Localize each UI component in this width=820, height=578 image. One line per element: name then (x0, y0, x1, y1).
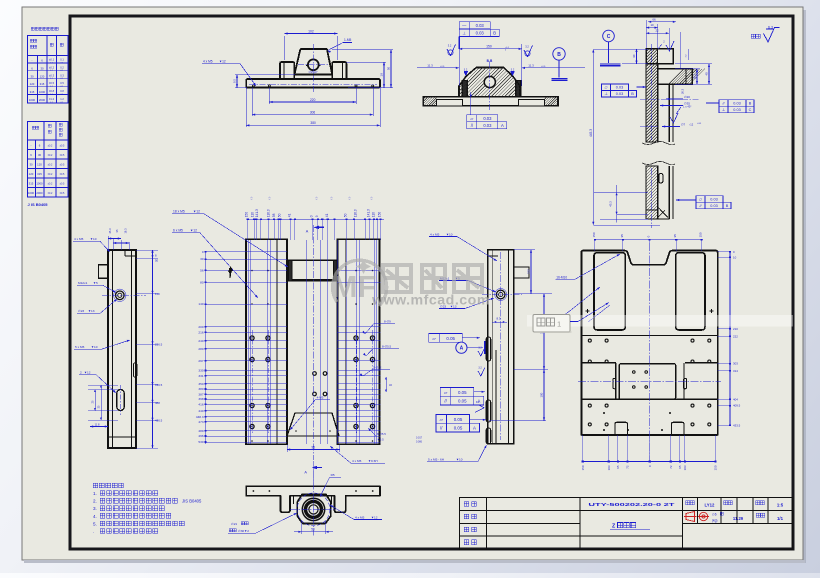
bottom bar (246, 486, 380, 512)
left small dim 9.5 (235, 74, 295, 76)
drawing badge tooltip (533, 303, 609, 334)
right side view annotations (416, 232, 552, 461)
svg-text:1000: 1000 (36, 182, 43, 186)
right ordinate dims (152, 250, 154, 448)
svg-text:-0.03: -0.03 (697, 123, 701, 125)
svg-text:448.3: 448.3 (196, 415, 204, 419)
horizontal divider (581, 335, 717, 337)
svg-text:222: 222 (733, 335, 738, 339)
center view top ordinate row (172, 197, 384, 460)
hole circle (496, 290, 505, 299)
horizontal centerline (578, 381, 721, 383)
svg-text:2-∅12: 2-∅12 (373, 366, 382, 370)
svg-text:B-B: B-B (487, 59, 493, 63)
svg-text:▼12: ▼12 (219, 59, 226, 63)
horizontal centerline through hole (102, 294, 146, 296)
tolerance table 2 (28, 122, 69, 198)
svg-text:3.: 3. (93, 506, 97, 511)
svg-text:4 x M5: 4 x M5 (203, 59, 213, 63)
base slots white (436, 99, 462, 106)
svg-text:110: 110 (372, 212, 376, 217)
svg-text:58: 58 (272, 213, 276, 217)
projection symbol first angle (684, 512, 697, 522)
left dim 40 (622, 63, 648, 65)
svg-text:11.29: 11.29 (733, 516, 744, 521)
cross marks (586, 310, 590, 312)
svg-text:8-∅5.5: 8-∅5.5 (382, 345, 391, 349)
svg-text:∅30▼2: ∅30▼2 (238, 529, 249, 533)
svg-text:141.3: 141.3 (367, 209, 371, 217)
svg-text:▼9 6H: ▼9 6H (368, 459, 378, 463)
svg-text:18 x M5: 18 x M5 (173, 210, 185, 214)
svg-text:▼10: ▼10 (446, 232, 453, 236)
svg-text:A: A (501, 123, 504, 128)
svg-text:B: B (749, 101, 752, 105)
svg-text:315: 315 (29, 182, 34, 186)
svg-text:95: 95 (673, 234, 677, 238)
svg-text:11.3: 11.3 (427, 63, 433, 67)
watermark url (371, 293, 490, 309)
svg-text:72: 72 (626, 465, 630, 469)
svg-text:2000: 2000 (39, 98, 46, 102)
svg-text:5 x M5 - 6H: 5 x M5 - 6H (428, 457, 444, 461)
GDT single flatness (429, 334, 440, 343)
boss center hole (308, 59, 319, 70)
left plate (246, 239, 287, 444)
svg-text:∅20: ∅20 (684, 95, 690, 99)
svg-text:95: 95 (678, 465, 682, 469)
GDT pair low (436, 415, 447, 424)
right rib block (332, 62, 346, 79)
svg-text:0.03: 0.03 (616, 92, 623, 96)
svg-text:8.3: 8.3 (497, 317, 501, 321)
lower slot stadium (117, 390, 124, 411)
svg-text:489: 489 (198, 429, 203, 433)
svg-text:4 x M5: 4 x M5 (430, 232, 440, 236)
svg-text:150: 150 (699, 232, 703, 237)
svg-text:2000: 2000 (36, 191, 43, 195)
svg-text:11.3: 11.3 (528, 63, 534, 67)
svg-text:45.3: 45.3 (108, 228, 112, 234)
boss horizontal centerline (298, 64, 329, 66)
svg-text:(..): (..) (251, 197, 253, 200)
svg-text:315: 315 (37, 172, 42, 176)
watermark CJK chars (383, 265, 482, 292)
svg-text:±0.5: ±0.5 (60, 192, 65, 195)
top flange (646, 49, 673, 64)
bottom trapezoid (287, 413, 339, 436)
center trapezoid boss (294, 49, 332, 75)
left riser solid (462, 81, 467, 97)
lower left dim 45.3 (594, 192, 648, 194)
svg-text:A: A (473, 426, 476, 431)
svg-text:26.3: 26.3 (681, 88, 685, 94)
svg-text:56: 56 (200, 269, 204, 273)
svg-text:0.017: 0.017 (416, 437, 423, 440)
svg-text:.: . (93, 529, 94, 534)
section view B-B (414, 68, 566, 106)
horizontal grid lines across plates (206, 251, 287, 253)
svg-text:0.006: 0.006 (416, 441, 423, 444)
svg-text:(kg): (kg) (712, 519, 718, 523)
svg-text:409.5: 409.5 (733, 404, 741, 408)
svg-text:103: 103 (607, 465, 611, 470)
svg-text:315: 315 (30, 90, 35, 94)
svg-text:3.2: 3.2 (525, 45, 529, 49)
right section view (568, 49, 733, 219)
boss dia arrows (303, 508, 307, 510)
svg-text:1: 1 (557, 320, 561, 329)
hex boss (297, 495, 331, 524)
dim 95 bottom (286, 444, 288, 452)
top cutout right (676, 253, 705, 330)
svg-text:(..): (..) (316, 197, 318, 200)
svg-text:256.5: 256.5 (155, 342, 163, 346)
svg-text:0.8: 0.8 (60, 89, 64, 93)
section view annotations (417, 22, 585, 129)
svg-text:150: 150 (714, 465, 718, 470)
plate holes (250, 336, 254, 340)
svg-text:0.03: 0.03 (616, 86, 623, 90)
svg-text:80: 80 (200, 281, 204, 285)
top step (488, 255, 498, 257)
top dims (645, 20, 647, 48)
svg-text:1000: 1000 (39, 90, 46, 94)
svg-text:3.2: 3.2 (448, 44, 452, 48)
svg-text:9: 9 (315, 215, 319, 217)
svg-text:↑12: ↑12 (689, 122, 694, 126)
svg-text:A: A (306, 229, 309, 233)
base holes centerline (249, 84, 377, 86)
right plate (338, 239, 380, 444)
tolerance table title (31, 27, 58, 30)
svg-text:118: 118 (155, 292, 160, 296)
svg-text:10: 10 (650, 23, 654, 27)
center view right side labels (287, 320, 399, 488)
svg-text:330: 330 (198, 369, 203, 373)
svg-text:∅6: ∅6 (712, 513, 717, 517)
GDT frame bottom (467, 115, 477, 122)
svg-text:±0.5: ±0.5 (60, 183, 65, 186)
svg-text:95: 95 (616, 465, 620, 469)
side view body (108, 250, 136, 448)
web right wall (668, 84, 670, 142)
svg-text:B: B (493, 30, 496, 35)
svg-text:4-M5: 4-M5 (317, 395, 324, 399)
selection band (527, 315, 793, 327)
base plate (246, 79, 380, 88)
svg-text:19: 19 (380, 73, 384, 77)
svg-text:∅7: ∅7 (681, 122, 686, 126)
tolerance table 1 (28, 36, 69, 104)
svg-text:±0.5: ±0.5 (60, 173, 65, 176)
countersink hole (116, 291, 125, 300)
bottom foot chamfer (658, 207, 668, 218)
svg-text:0.03: 0.03 (476, 30, 485, 35)
svg-text:8-∅5.5: 8-∅5.5 (377, 432, 386, 436)
bottom view (228, 471, 382, 537)
GDT pair mid (440, 388, 451, 397)
svg-text:-0.05: -0.05 (440, 66, 444, 68)
black section mark left (229, 268, 232, 278)
svg-text:473: 473 (198, 420, 203, 424)
svg-text:408: 408 (155, 401, 160, 405)
svg-text:C: C (749, 108, 752, 112)
right section annotations (589, 18, 780, 229)
svg-text:210: 210 (733, 327, 738, 331)
svg-text:1/1: 1/1 (777, 516, 784, 521)
svg-text:⊥: ⊥ (462, 30, 466, 35)
svg-text:297: 297 (198, 359, 203, 363)
svg-text:40: 40 (705, 72, 709, 76)
svg-text:350: 350 (198, 382, 203, 386)
svg-text:▼6.5: ▼6.5 (377, 438, 384, 442)
left edge slots (486, 337, 491, 361)
material cell (686, 501, 695, 505)
svg-text:-: - (31, 144, 32, 148)
svg-text:41: 41 (288, 213, 292, 217)
centerline vertical (651, 44, 653, 140)
svg-text:5.: 5. (93, 521, 97, 526)
GDT lower right pair (696, 196, 705, 203)
svg-text:41: 41 (325, 213, 329, 217)
svg-text:8-∅9: 8-∅9 (384, 320, 391, 324)
dim 50 bottom (301, 521, 303, 534)
svg-text:4 x M5: 4 x M5 (352, 459, 362, 463)
hump centerline (489, 62, 491, 110)
svg-text:▱: ▱ (440, 417, 444, 422)
svg-text:▱: ▱ (432, 336, 436, 341)
svg-text:C: C (607, 34, 611, 40)
GDT right pair (719, 100, 728, 107)
svg-text:0.03: 0.03 (733, 108, 740, 112)
svg-text:4 x M5: 4 x M5 (74, 237, 84, 241)
lower slot (659, 174, 663, 184)
svg-text:▼10: ▼10 (90, 237, 97, 241)
svg-text:▼12: ▼12 (190, 229, 197, 233)
svg-text:±0.3: ±0.3 (49, 73, 55, 77)
datum C symbol (603, 30, 615, 42)
right dims 19 and 50 (348, 87, 393, 89)
svg-text:120: 120 (29, 172, 34, 176)
45 deg chamfer note (676, 107, 681, 114)
svg-text:±0.2: ±0.2 (48, 183, 53, 186)
right dims 26.3 40 (675, 68, 700, 70)
svg-text:331: 331 (198, 374, 203, 378)
svg-text:0.03: 0.03 (710, 198, 717, 202)
right plate view (581, 251, 717, 435)
svg-text:100: 100 (540, 392, 544, 397)
svg-text:▼10: ▼10 (91, 345, 98, 349)
svg-text:50: 50 (311, 527, 315, 531)
svg-text:380: 380 (198, 387, 203, 391)
svg-text:0.05: 0.05 (446, 336, 455, 341)
svg-text:440: 440 (198, 409, 203, 413)
right dims 112 100 100 (514, 249, 535, 251)
center view plates (246, 239, 380, 444)
title block left labels (464, 502, 476, 507)
svg-text:200: 200 (198, 325, 203, 329)
center column holes (313, 372, 317, 376)
svg-text:416: 416 (198, 402, 203, 406)
svg-text:0.1: 0.1 (60, 58, 64, 62)
svg-text:A: A (304, 471, 307, 475)
svg-text:50: 50 (277, 213, 281, 217)
center view centerlines (312, 225, 314, 460)
svg-text:387: 387 (198, 392, 203, 396)
vertical centerline (649, 243, 651, 462)
datum A symbol (456, 342, 467, 353)
leader from badge to plate (570, 321, 578, 323)
svg-text:±0.8: ±0.8 (49, 89, 55, 93)
misc dims right of flange (687, 49, 689, 60)
left rib block (280, 62, 294, 79)
svg-text:1.: 1. (93, 491, 97, 496)
svg-text:303: 303 (733, 362, 738, 366)
svg-text:∅23: ∅23 (78, 309, 84, 313)
svg-text:(..): (..) (269, 197, 271, 200)
svg-text:112: 112 (527, 269, 531, 274)
svg-text:50: 50 (387, 67, 391, 71)
svg-text:(..): (..) (349, 197, 351, 200)
svg-text:±1.2: ±1.2 (49, 97, 55, 101)
svg-text:0.2: 0.2 (60, 65, 64, 69)
svg-text:1.2: 1.2 (60, 97, 64, 101)
svg-text:2: 2 (80, 370, 82, 374)
top dim row (595, 239, 703, 241)
lower divider (581, 398, 717, 400)
svg-text:433.5: 433.5 (733, 423, 741, 427)
11.3 lines (417, 67, 459, 69)
svg-text:380: 380 (310, 121, 316, 125)
svg-text:103: 103 (683, 465, 687, 470)
svg-text:1000: 1000 (28, 191, 35, 195)
svg-text:66: 66 (652, 18, 656, 22)
svg-text:3.2: 3.2 (511, 69, 515, 72)
svg-text:306: 306 (310, 110, 316, 114)
svg-text:120: 120 (30, 82, 35, 86)
svg-text:R5: R5 (331, 473, 335, 477)
top step (125, 255, 136, 257)
svg-text:530: 530 (198, 440, 203, 444)
svg-text:445.3: 445.3 (589, 129, 593, 137)
svg-text:45.3: 45.3 (609, 201, 613, 207)
svg-text:±0.2: ±0.2 (49, 65, 55, 69)
right side view body (486, 250, 529, 444)
GDT left pair (602, 84, 611, 91)
svg-text:150: 150 (245, 212, 249, 218)
diagonal leader to cutout (557, 287, 600, 321)
svg-text:±0.2: ±0.2 (48, 164, 53, 167)
web lower hatched (646, 166, 658, 219)
svg-text:116.3: 116.3 (267, 209, 271, 217)
svg-text:±0.5: ±0.5 (60, 164, 65, 167)
svg-text:0.03: 0.03 (483, 116, 492, 121)
svg-text:240: 240 (198, 339, 203, 343)
svg-text:1-M5: 1-M5 (344, 38, 351, 42)
watermark MF logo and text (332, 259, 387, 306)
svg-text:150: 150 (581, 465, 585, 470)
svg-text:26.3: 26.3 (693, 73, 697, 79)
svg-text:314: 314 (733, 369, 738, 373)
small side slots (613, 378, 616, 389)
svg-text:220: 220 (310, 98, 316, 102)
svg-text:▼13: ▼13 (88, 309, 95, 313)
svg-text:B: B (557, 52, 561, 58)
center block (619, 364, 676, 400)
inner diagonal leader 2 (588, 305, 610, 322)
svg-text:(..): (..) (331, 197, 333, 200)
svg-text:315: 315 (40, 82, 45, 86)
svg-text:1 x 45°: 1 x 45° (683, 105, 691, 109)
svg-text:6 x M5: 6 x M5 (173, 229, 183, 233)
svg-text:UTY-500202.20-0 2T: UTY-500202.20-0 2T (588, 502, 675, 507)
datum B symbol (553, 48, 565, 60)
svg-text:0.05: 0.05 (454, 426, 463, 431)
front view bracket (246, 49, 380, 88)
right plate annotations (555, 232, 740, 470)
svg-text:J IS B0405: J IS B0405 (28, 202, 49, 207)
right ordinate column (729, 252, 731, 426)
svg-text:0.03: 0.03 (733, 101, 740, 105)
svg-text:A: A (460, 346, 464, 352)
roughness symbol right (524, 46, 533, 57)
svg-text:30: 30 (30, 74, 34, 78)
svg-text:4.: 4. (93, 514, 97, 519)
bottom notches (615, 422, 628, 435)
svg-text:M12x1: M12x1 (78, 281, 88, 285)
svg-text:±0.1: ±0.1 (49, 58, 55, 62)
svg-text:±0.2: ±0.2 (48, 192, 53, 195)
left side view (99, 250, 138, 448)
svg-text:140: 140 (198, 302, 203, 306)
svg-text:1:5: 1:5 (777, 502, 784, 507)
roughness rotated between frames (475, 405, 484, 412)
overall dim 445.3 (592, 49, 594, 225)
svg-text:120: 120 (37, 163, 42, 167)
GDT frame top (459, 22, 469, 29)
horizontal centerlines (640, 98, 700, 100)
svg-text:▼12: ▼12 (193, 210, 200, 214)
svg-text:16-M10: 16-M10 (556, 276, 567, 280)
svg-text:40: 40 (632, 54, 636, 58)
svg-text:5 x M5: 5 x M5 (75, 345, 85, 349)
svg-text:±0.2: ±0.2 (48, 173, 53, 176)
right notch tab (514, 267, 529, 278)
base plate hole marks (252, 85, 254, 87)
svg-text:LY12: LY12 (705, 502, 715, 507)
svg-text:436.5: 436.5 (155, 419, 163, 423)
svg-text:±0.5: ±0.5 (60, 154, 65, 157)
svg-text:141.3: 141.3 (255, 209, 259, 217)
svg-text:0.05: 0.05 (458, 399, 467, 404)
svg-text:0.03: 0.03 (483, 123, 492, 128)
svg-text:280: 280 (198, 347, 203, 351)
svg-text:∅25H7: ∅25H7 (308, 70, 318, 74)
mid-right block (685, 362, 718, 364)
hump hole (484, 76, 495, 87)
front view dimensions (202, 29, 393, 127)
svg-text:∅21: ∅21 (231, 522, 237, 526)
svg-text:-0.05: -0.05 (541, 66, 545, 68)
boss centerlines (312, 471, 314, 537)
svg-text:22: 22 (655, 29, 659, 33)
dim 150 (458, 44, 460, 86)
svg-text:▼12: ▼12 (371, 515, 378, 519)
svg-text:110: 110 (251, 212, 255, 217)
svg-text:30: 30 (38, 153, 42, 157)
left notch (99, 265, 109, 279)
